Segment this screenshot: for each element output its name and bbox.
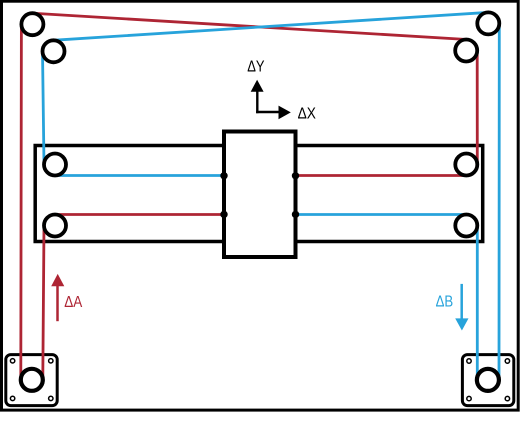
belt B (blue) motor-right to carriage via gantry lower-right pulley bbox=[296, 215, 478, 379]
svg-text:ΔX: ΔX bbox=[298, 106, 317, 123]
axis arrow X bbox=[256, 111, 279, 113]
idler pulley P3 top-right outer bbox=[477, 12, 499, 34]
gantry pulley lower-left bbox=[44, 215, 66, 237]
motor A body (bottom-left) bbox=[6, 355, 57, 406]
svg-text:ΔA: ΔA bbox=[64, 294, 82, 311]
axis arrow Y bbox=[256, 91, 258, 113]
motor B screw bottom-left bbox=[467, 396, 471, 400]
motor A drive pulley bbox=[21, 369, 43, 391]
belt B (blue) motor-right to carriage via P3,P2,PA bbox=[43, 12, 500, 378]
motor B screw bottom-right bbox=[505, 396, 509, 400]
belt anchor dot upper-left bbox=[220, 172, 227, 179]
motor A screw bottom-left bbox=[10, 396, 14, 400]
motor A screw bottom-right bbox=[49, 396, 53, 400]
belt A (red) motor-left to carriage via P1,P4,P5 bbox=[21, 13, 478, 378]
arrow dB (blue, down) bbox=[460, 284, 463, 320]
belt anchor dot lower-left bbox=[220, 211, 227, 218]
belt anchor dot lower-right bbox=[292, 211, 299, 218]
belt A (red) motor-left to carriage via gantry lower-left pulley bbox=[43, 215, 224, 379]
idler pulley P2 top-left inner bbox=[43, 40, 65, 62]
motor A screw top-left bbox=[10, 359, 14, 363]
motor A screw top-right bbox=[49, 359, 53, 363]
svg-text:ΔB: ΔB bbox=[436, 293, 454, 310]
gantry pulley lower-right bbox=[455, 215, 477, 237]
motor B screw top-right bbox=[505, 359, 509, 363]
belt anchor dot upper-right bbox=[292, 172, 299, 179]
gantry bbox=[35, 146, 483, 242]
arrow dA (red, up) bbox=[56, 285, 59, 321]
svg-text:ΔY: ΔY bbox=[247, 59, 265, 76]
carriage bbox=[224, 132, 296, 258]
idler pulley P1 top-left outer bbox=[21, 13, 43, 35]
motor B body (bottom-right) bbox=[462, 355, 513, 406]
motor B screw top-left bbox=[467, 359, 471, 363]
motor B drive pulley bbox=[477, 369, 499, 391]
idler pulley P4 top-right inner bbox=[455, 40, 477, 62]
gantry pulley upper-right bbox=[455, 154, 477, 176]
gantry pulley upper-left bbox=[44, 154, 66, 176]
